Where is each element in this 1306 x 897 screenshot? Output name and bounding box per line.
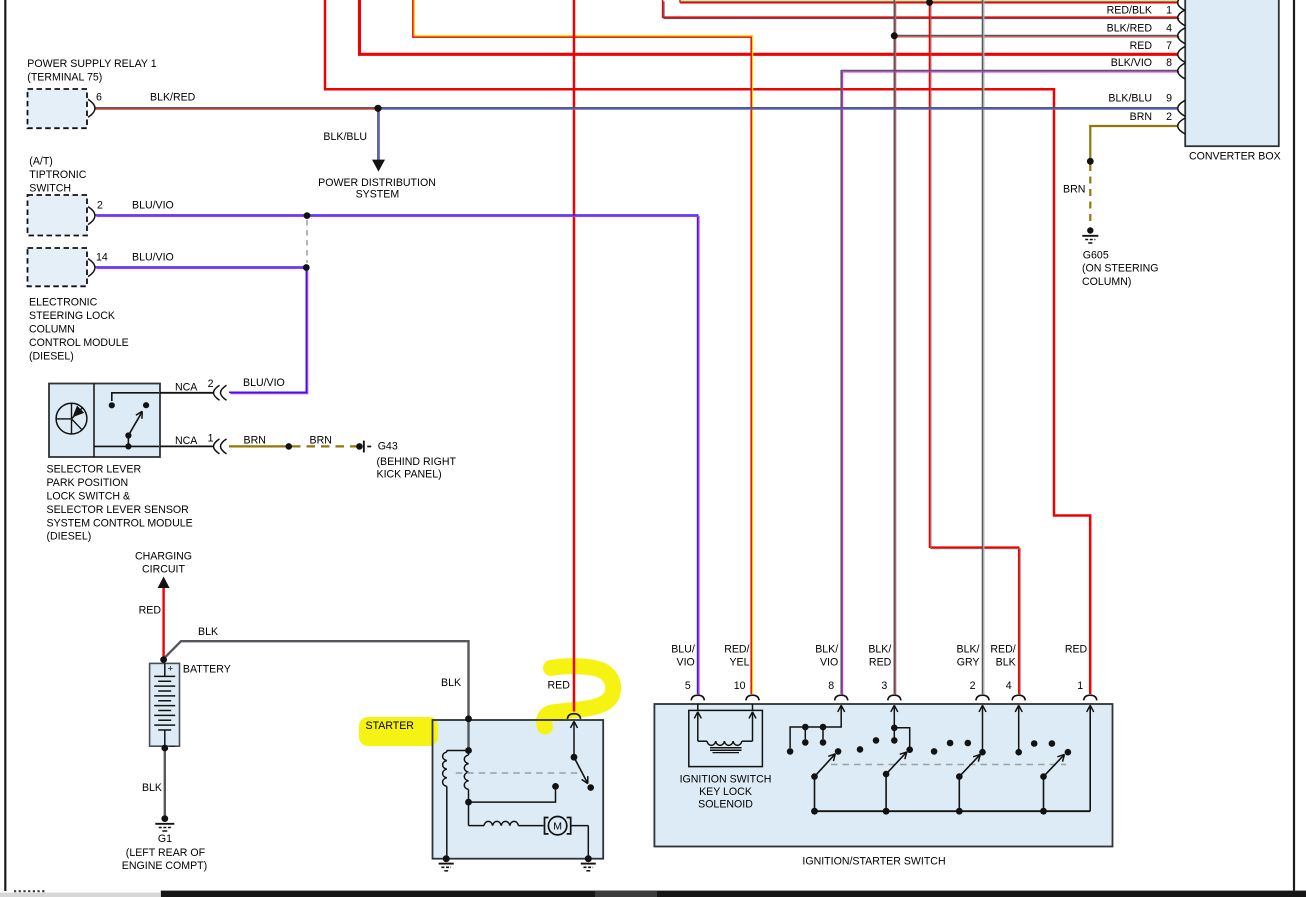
- svg-text:VIO: VIO: [820, 656, 838, 668]
- svg-text:(A/T): (A/T): [29, 156, 53, 168]
- svg-text:SELECTOR LEVER: SELECTOR LEVER: [47, 464, 142, 476]
- svg-text:2: 2: [208, 378, 214, 390]
- svg-text:BLK/VIO: BLK/VIO: [1111, 57, 1152, 69]
- svg-text:+: +: [168, 664, 174, 675]
- svg-text:(DIESEL): (DIESEL): [47, 531, 92, 543]
- svg-text:(LEFT REAR OF: (LEFT REAR OF: [126, 847, 206, 859]
- svg-text:BATTERY: BATTERY: [183, 663, 231, 675]
- svg-text:3: 3: [881, 680, 887, 692]
- svg-text:5: 5: [685, 680, 691, 692]
- svg-text:9: 9: [1166, 93, 1172, 105]
- svg-text:(TERMINAL 75): (TERMINAL 75): [27, 72, 102, 84]
- svg-text:G1: G1: [158, 833, 172, 845]
- svg-text:BLU/VIO: BLU/VIO: [243, 377, 285, 389]
- svg-text:2: 2: [1166, 111, 1172, 123]
- svg-text:BLK/RED: BLK/RED: [1107, 22, 1153, 34]
- svg-text:RED: RED: [1130, 40, 1153, 52]
- svg-text:TIPTRONIC: TIPTRONIC: [29, 169, 86, 181]
- svg-text:ENGINE COMPT): ENGINE COMPT): [122, 860, 207, 872]
- svg-text:KEY LOCK: KEY LOCK: [699, 786, 752, 798]
- svg-text:RED: RED: [139, 605, 162, 617]
- svg-text:SWITCH: SWITCH: [29, 183, 71, 195]
- svg-text:4: 4: [1006, 680, 1012, 692]
- svg-text:BLK/RED: BLK/RED: [150, 92, 196, 104]
- svg-text:NCA: NCA: [175, 382, 198, 394]
- svg-text:CHARGING: CHARGING: [135, 551, 192, 563]
- svg-text:BRN: BRN: [1063, 184, 1085, 196]
- svg-text:14: 14: [96, 252, 108, 264]
- svg-text:KICK PANEL): KICK PANEL): [377, 469, 442, 481]
- svg-text:RED: RED: [869, 656, 892, 668]
- svg-text:LOCK SWITCH &: LOCK SWITCH &: [47, 491, 131, 503]
- svg-text:2: 2: [970, 680, 976, 692]
- svg-text:COLUMN: COLUMN: [29, 324, 75, 336]
- svg-text:_: _: [169, 737, 176, 748]
- svg-text:CONVERTER BOX: CONVERTER BOX: [1189, 151, 1281, 163]
- svg-text:YEL: YEL: [729, 656, 749, 668]
- svg-text:BLK/BLU: BLK/BLU: [1108, 93, 1152, 105]
- svg-text:M: M: [553, 821, 562, 833]
- svg-text:BRN: BRN: [1130, 111, 1152, 123]
- svg-text:BLK: BLK: [996, 656, 1016, 668]
- svg-text:1: 1: [1077, 680, 1083, 692]
- svg-text:RED/: RED/: [724, 643, 749, 655]
- svg-text:RED/: RED/: [990, 643, 1015, 655]
- svg-text:8: 8: [828, 680, 834, 692]
- svg-text:BLK: BLK: [198, 626, 218, 638]
- svg-text:BLK/BLU: BLK/BLU: [323, 131, 367, 143]
- svg-text:SOLENOID: SOLENOID: [698, 799, 753, 811]
- svg-text:SYSTEM CONTROL MODULE: SYSTEM CONTROL MODULE: [47, 517, 193, 529]
- svg-text:BLU/VIO: BLU/VIO: [132, 252, 174, 264]
- svg-text:1: 1: [1166, 5, 1172, 17]
- svg-text:SYSTEM: SYSTEM: [356, 188, 400, 200]
- svg-text:6: 6: [96, 92, 102, 104]
- svg-text:10: 10: [734, 680, 746, 692]
- svg-text:NCA: NCA: [175, 435, 198, 447]
- svg-text:1: 1: [208, 433, 214, 445]
- svg-text:2: 2: [97, 200, 103, 212]
- svg-text:G43: G43: [378, 441, 398, 453]
- svg-text:BRN: BRN: [310, 435, 332, 447]
- svg-text:4: 4: [1166, 22, 1172, 34]
- svg-text:(DIESEL): (DIESEL): [29, 350, 74, 362]
- svg-text:SELECTOR LEVER SENSOR: SELECTOR LEVER SENSOR: [47, 504, 190, 516]
- svg-text:STARTER: STARTER: [366, 720, 415, 732]
- svg-text:BLU/: BLU/: [671, 643, 695, 655]
- svg-text:RED/BLK: RED/BLK: [1107, 5, 1152, 17]
- svg-text:CONTROL MODULE: CONTROL MODULE: [29, 337, 129, 349]
- svg-text:RED: RED: [1065, 643, 1088, 655]
- svg-text:BLK/: BLK/: [868, 643, 891, 655]
- svg-text:IGNITION/STARTER SWITCH: IGNITION/STARTER SWITCH: [802, 856, 945, 868]
- svg-text:CIRCUIT: CIRCUIT: [142, 564, 185, 576]
- svg-text:8: 8: [1166, 57, 1172, 69]
- svg-text:BRN: BRN: [244, 435, 266, 447]
- svg-text:BLK/: BLK/: [957, 643, 980, 655]
- svg-text:(BEHIND RIGHT: (BEHIND RIGHT: [377, 456, 457, 468]
- svg-text:RED: RED: [548, 680, 571, 692]
- svg-text:POWER DISTRIBUTION: POWER DISTRIBUTION: [318, 177, 436, 189]
- svg-text:COLUMN): COLUMN): [1082, 276, 1131, 288]
- svg-text:ELECTRONIC: ELECTRONIC: [29, 297, 98, 309]
- svg-text:VIO: VIO: [677, 656, 695, 668]
- svg-text:BLK: BLK: [142, 782, 162, 794]
- svg-text:IGNITION SWITCH: IGNITION SWITCH: [680, 774, 772, 786]
- svg-text:G605: G605: [1083, 250, 1109, 262]
- svg-text:(ON STEERING: (ON STEERING: [1082, 263, 1159, 275]
- svg-text:BLK/: BLK/: [815, 643, 838, 655]
- svg-text:POWER SUPPLY RELAY 1: POWER SUPPLY RELAY 1: [27, 58, 156, 70]
- svg-text:GRY: GRY: [957, 656, 980, 668]
- svg-text:PARK POSITION: PARK POSITION: [47, 477, 129, 489]
- svg-text:BLK: BLK: [441, 677, 461, 689]
- svg-text:BLU/VIO: BLU/VIO: [132, 200, 174, 212]
- svg-text:7: 7: [1166, 40, 1172, 52]
- svg-text:STEERING LOCK: STEERING LOCK: [29, 310, 115, 322]
